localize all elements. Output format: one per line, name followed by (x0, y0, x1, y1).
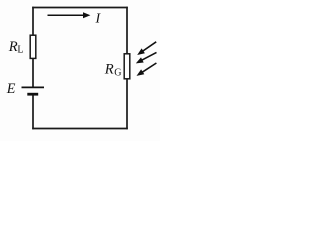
svg-text:R: R (8, 39, 18, 55)
light arrow 3 (137, 63, 157, 76)
current arrow I (48, 12, 91, 18)
top wire (32, 7, 128, 9)
battery E short plate (27, 93, 38, 96)
label RL (8, 39, 24, 56)
battery E long plate (22, 86, 45, 88)
right wire upper segment (126, 7, 128, 55)
left wire lower segment (32, 94, 34, 129)
photoresistor RG (124, 54, 130, 79)
svg-text:R: R (104, 61, 114, 77)
left wire middle segment (32, 58, 34, 88)
svg-text:E: E (6, 81, 16, 97)
label RG (104, 61, 122, 78)
right wire lower segment (126, 78, 128, 129)
left wire upper segment (32, 7, 34, 36)
bottom wire (32, 128, 128, 130)
resistor RL (30, 35, 36, 58)
light arrow 2 (136, 52, 157, 63)
light arrow 1 (137, 42, 156, 55)
svg-text:L: L (17, 45, 23, 56)
svg-text:G: G (114, 67, 121, 78)
